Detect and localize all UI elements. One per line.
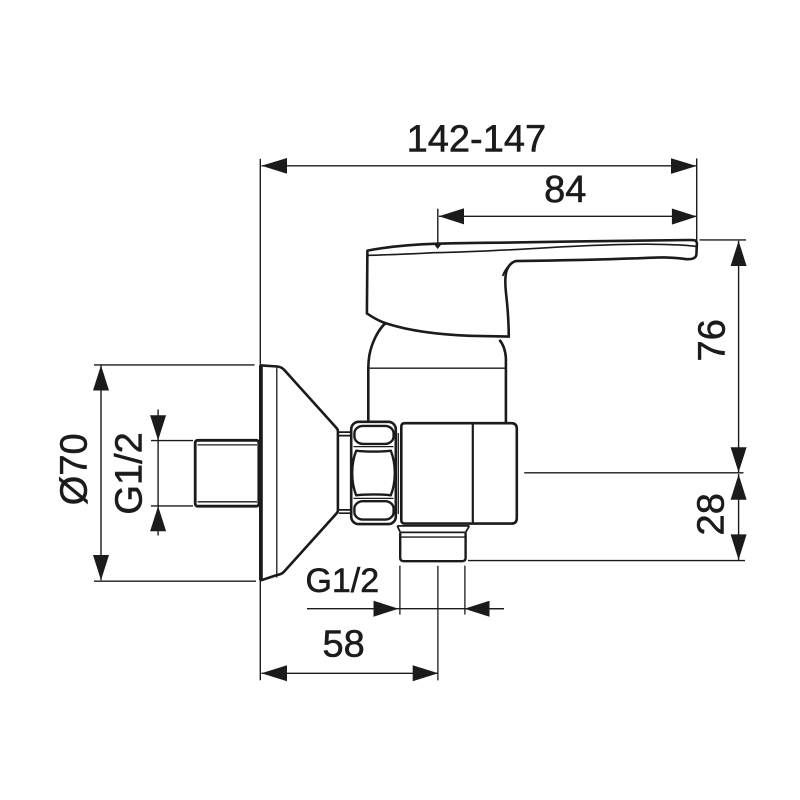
pipe between flange and nut bbox=[339, 432, 351, 513]
dimension 76 bottom arrow bbox=[731, 447, 747, 472]
hex nut waist lines bbox=[354, 447, 394, 499]
dimension G1/2 bottom: left extension line bbox=[399, 566, 401, 615]
hex nut middle facet barrel bbox=[352, 451, 395, 496]
body column right edge bbox=[499, 340, 506, 423]
outlet chamfer collar bbox=[397, 526, 469, 533]
svg-text:Ø70: Ø70 bbox=[54, 433, 96, 505]
dimension D70 line bbox=[100, 365, 102, 580]
outlet thread relief line bbox=[401, 536, 465, 538]
handle crease near lever root bbox=[503, 262, 514, 276]
wall flange left face inner edge bbox=[259, 365, 261, 580]
dimension 28 bottom extension line bbox=[468, 560, 745, 562]
valve body block bbox=[401, 423, 517, 523]
dimension 142-147: extension line at wall bbox=[259, 159, 261, 680]
dimension 76 top arrow bbox=[731, 241, 747, 266]
dimension 84 right arrow bbox=[672, 209, 697, 225]
dimension G1/2 left top arrow bbox=[150, 415, 166, 440]
dimension D70 top extension line bbox=[94, 364, 255, 366]
wall flange cone bbox=[262, 365, 338, 580]
dimension 76 top extension line bbox=[700, 239, 747, 241]
svg-text:76: 76 bbox=[692, 319, 734, 361]
svg-text:G1/2: G1/2 bbox=[109, 432, 151, 514]
wall flange rim inner line bbox=[276, 368, 278, 578]
dimension 58 line bbox=[261, 672, 438, 674]
dimension G1/2 left line bbox=[157, 410, 159, 536]
dimension G1/2 bottom right tail bbox=[490, 608, 505, 610]
hex nut top facet bbox=[354, 426, 393, 444]
dimension 84 pointer tip triangle bbox=[433, 243, 442, 249]
dimension 84 pointer line to handle bbox=[437, 209, 439, 244]
svg-text:28: 28 bbox=[691, 493, 733, 535]
dimension G1/2 left bottom arrow bbox=[150, 506, 166, 531]
dimension 142-147 / 84: right extension line at lever tip bbox=[696, 158, 698, 240]
dimension 76 line bbox=[738, 241, 740, 473]
dimension 28 top arrow bbox=[731, 474, 747, 500]
dimension 28 bottom arrow bbox=[731, 534, 747, 560]
hex nut bottom facet bbox=[354, 501, 393, 519]
dimension 84 left arrow bbox=[439, 208, 464, 224]
dimension G1/2 bottom: right extension line bbox=[464, 566, 466, 615]
dimension D70 top arrow bbox=[93, 365, 109, 390]
dimension 58 left arrow bbox=[261, 665, 287, 681]
dimension G1/2 bottom line bbox=[307, 608, 504, 610]
connector chamfer lines bbox=[198, 445, 258, 502]
faucet handle lever outline bbox=[367, 240, 697, 337]
handle lever inner chamfer line bbox=[368, 244, 695, 255]
svg-text:142-147: 142-147 bbox=[407, 118, 546, 160]
valve body cap seam bbox=[472, 423, 474, 523]
dimension 84 line bbox=[439, 215, 697, 217]
body column left edge with dome curve bbox=[368, 323, 386, 423]
dimension G1/2 bottom right arrow bbox=[464, 601, 489, 617]
dimension D70 bottom arrow bbox=[93, 555, 109, 580]
hex nut outer bbox=[351, 422, 396, 524]
dimension 142-147 right arrow bbox=[671, 158, 697, 174]
dimension 28 line bbox=[738, 474, 740, 560]
svg-text:G1/2: G1/2 bbox=[305, 562, 379, 600]
svg-text:58: 58 bbox=[323, 624, 365, 666]
wall supply connector bbox=[195, 440, 259, 506]
dimension G1/2 bottom left arrow bbox=[374, 601, 399, 617]
outlet threaded spigot bbox=[400, 533, 465, 561]
dimension 142-147 left arrow bbox=[262, 158, 288, 174]
dimension D70 bottom extension line bbox=[94, 580, 256, 582]
dimension 58 right arrow bbox=[413, 665, 439, 681]
dimension 58 centerline extension bbox=[437, 566, 439, 681]
dimension 142-147 line bbox=[262, 165, 697, 167]
body column seam line bbox=[370, 367, 505, 369]
groove between nut and body bbox=[397, 433, 399, 514]
dimension 76/28 middle extension line at axis bbox=[524, 472, 743, 474]
dimension G1/2 left: extension lines bbox=[151, 441, 193, 506]
svg-text:84: 84 bbox=[544, 169, 586, 211]
